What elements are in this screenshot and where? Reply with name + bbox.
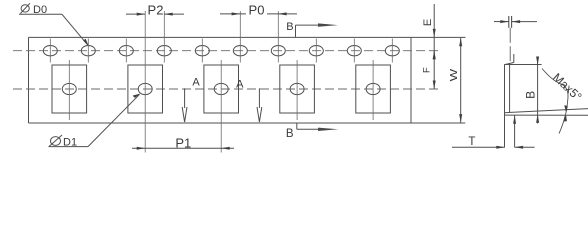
carrier tape outline: [29, 37, 466, 123]
sprocket hole 5: [195, 39, 209, 63]
section A arrow left: [182, 88, 187, 122]
component pocket 1: [52, 60, 87, 120]
sprocket hole centerline: [13, 50, 438, 52]
svg-text:P1: P1: [175, 135, 191, 150]
dimension F: [433, 51, 436, 89]
sprocket hole 8: [309, 39, 323, 63]
label diameter D1: [49, 135, 62, 147]
component pocket 2: [128, 11, 163, 153]
sprocket hole 6: [233, 11, 247, 63]
sprocket hole 9: [347, 39, 361, 63]
svg-text:A: A: [236, 78, 244, 90]
sprocket hole 3: [119, 39, 133, 63]
bend arc: [542, 69, 568, 134]
component pocket 3: [204, 60, 239, 153]
section B marker bottom: [297, 123, 338, 131]
svg-text:T: T: [468, 136, 475, 148]
dimension B side view: [536, 57, 539, 124]
leader D0: [19, 14, 89, 46]
sprocket hole 10: [385, 39, 399, 63]
dimension P2: [126, 13, 184, 16]
svg-text:E: E: [422, 19, 434, 26]
sprocket hole 1: [43, 39, 57, 63]
svg-text:B: B: [286, 128, 294, 140]
sprocket hole 2: [81, 39, 95, 63]
dimension W: [459, 38, 462, 123]
svg-text:Max5°: Max5°: [550, 70, 585, 104]
section B marker top: [296, 23, 339, 37]
svg-text:A: A: [192, 77, 200, 89]
side view centerline: [509, 28, 511, 64]
pocket centerline: [13, 88, 440, 90]
flap line bent 5 degrees: [505, 109, 588, 113]
svg-text:B: B: [524, 91, 538, 99]
component pocket 4: [280, 60, 315, 120]
dimension T: [452, 146, 535, 149]
component pocket 5: [356, 60, 391, 120]
dimension P1: [132, 147, 234, 150]
label diameter D0: [20, 3, 30, 13]
svg-text:P0: P0: [249, 3, 265, 18]
section A arrow right: [257, 88, 262, 122]
dimension E: [433, 4, 436, 59]
svg-text:F: F: [422, 67, 433, 73]
T extension line right: [513, 115, 516, 147]
sprocket hole 4: [157, 11, 171, 63]
side view profile: [504, 54, 541, 147]
sprocket hole 7: [271, 11, 285, 63]
flap line nominal: [505, 114, 588, 116]
svg-text:P2: P2: [148, 3, 164, 18]
leader D1: [49, 94, 141, 147]
side view tape edge top: [509, 16, 512, 28]
dimension P0: [220, 12, 297, 15]
side view top thickness dimension: [494, 20, 537, 23]
svg-text:B: B: [286, 21, 293, 33]
svg-text:W: W: [448, 69, 460, 82]
